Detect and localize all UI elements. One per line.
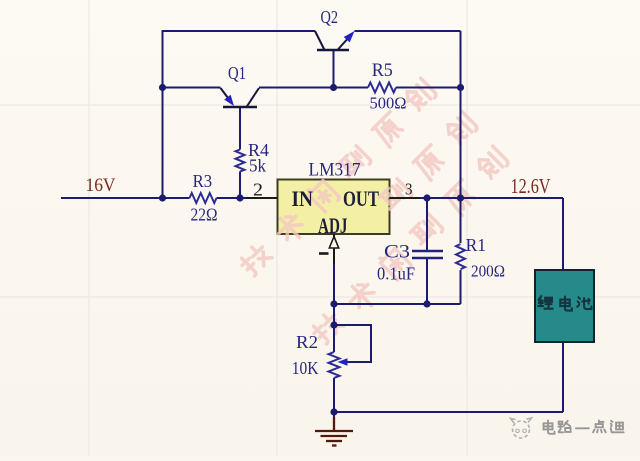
wire C3 top lead — [426, 198, 428, 251]
lithium battery box — [535, 270, 594, 342]
svg-text:16V: 16V — [86, 176, 117, 196]
potentiometer R2 body — [329, 352, 340, 378]
wire ADJ horizontal — [334, 303, 461, 305]
wire R1 top lead — [460, 198, 462, 243]
junction ADJ node — [330, 300, 337, 307]
pin 1 tick — [319, 252, 329, 255]
watermark run 3 — [309, 146, 512, 349]
potentiometer R2 wiper arrow — [338, 358, 348, 366]
junction C3 top / OUT rail — [423, 194, 430, 201]
wire middle rail Q1 to R5 — [259, 87, 368, 89]
pin 3 lead — [390, 197, 420, 199]
svg-text:OUT: OUT — [343, 186, 379, 211]
resistor R5 — [368, 83, 396, 93]
wire middle rail left of Q1 — [163, 87, 221, 89]
svg-text:R2: R2 — [296, 332, 318, 352]
wire C3 bottom lead — [426, 258, 428, 304]
wire right vertical — [460, 31, 462, 198]
svg-text:R1: R1 — [466, 235, 487, 255]
svg-text:12.6V: 12.6V — [511, 174, 551, 198]
wire Q1 base to R4 — [239, 107, 241, 150]
svg-text:LM317: LM317 — [309, 161, 361, 181]
wire ground stem — [333, 412, 335, 418]
wire ADJ down — [333, 264, 335, 352]
junction R2 top / wiper — [330, 321, 337, 328]
junction left rail / input rail — [159, 194, 166, 201]
svg-text:0.1uF: 0.1uF — [377, 264, 415, 284]
LM317 regulator U1 box — [278, 180, 390, 235]
resistor R1 — [456, 244, 465, 269]
junction ground node — [330, 408, 337, 415]
wire bottom return — [334, 411, 563, 413]
wire R2 bottom lead — [333, 378, 335, 412]
junction R5 / right vertical — [457, 84, 464, 91]
logo text 电路一点通 — [544, 420, 624, 433]
svg-text:500Ω: 500Ω — [370, 94, 407, 113]
transistor Q2 — [315, 31, 350, 50]
resistor R4 — [236, 150, 245, 172]
svg-text:22Ω: 22Ω — [191, 205, 218, 225]
svg-text:3: 3 — [405, 180, 413, 199]
svg-text:IN: IN — [292, 186, 314, 211]
transistor Q1 — [221, 88, 260, 107]
junction node 2 (R3-R4-IN) — [236, 194, 243, 201]
wire R2 wiper loop — [334, 325, 371, 362]
svg-text:Q2: Q2 — [321, 7, 339, 27]
battery label 锂电池 — [538, 296, 591, 310]
junction Q2 base / middle rail — [330, 84, 337, 91]
junction C3 bottom / ADJ wire — [423, 300, 430, 307]
svg-text:5k: 5k — [249, 156, 266, 176]
pin 2 lead — [246, 197, 278, 199]
wire top rail right segment — [355, 30, 461, 32]
junction left rail / middle rail — [159, 84, 166, 91]
logo icon — [511, 418, 532, 438]
ADJ pin lead — [333, 234, 335, 264]
wire Q2 base down — [333, 50, 335, 88]
junction R1 top / OUT rail — [457, 194, 464, 201]
wire OUT rail — [420, 197, 564, 199]
svg-text:C3: C3 — [384, 243, 410, 263]
watermark 技术闲聊原创 run 1 — [237, 78, 512, 349]
wire left vertical — [162, 30, 164, 198]
svg-text:ADJ: ADJ — [318, 213, 348, 238]
svg-text:2: 2 — [253, 180, 263, 200]
wire R5 right lead to right vertical — [396, 87, 461, 89]
ADJ pin input triangle — [329, 237, 338, 249]
watermark run 2 — [377, 111, 481, 215]
wire R4 to input rail — [239, 172, 241, 199]
svg-text:Q1: Q1 — [228, 63, 246, 83]
svg-text:200Ω: 200Ω — [471, 262, 505, 281]
wire battery bottom — [562, 342, 564, 412]
wire R3 right lead — [217, 197, 249, 199]
svg-text:R5: R5 — [372, 61, 393, 81]
wire 16V input — [61, 197, 190, 199]
wire R1 bottom lead — [460, 270, 462, 304]
wire to battery top — [562, 198, 564, 270]
wire top rail left segment — [163, 30, 316, 32]
svg-text:R3: R3 — [193, 171, 213, 191]
svg-text:10K: 10K — [292, 358, 319, 378]
resistor R3 — [190, 193, 217, 203]
capacitor C3 plates — [412, 251, 443, 258]
